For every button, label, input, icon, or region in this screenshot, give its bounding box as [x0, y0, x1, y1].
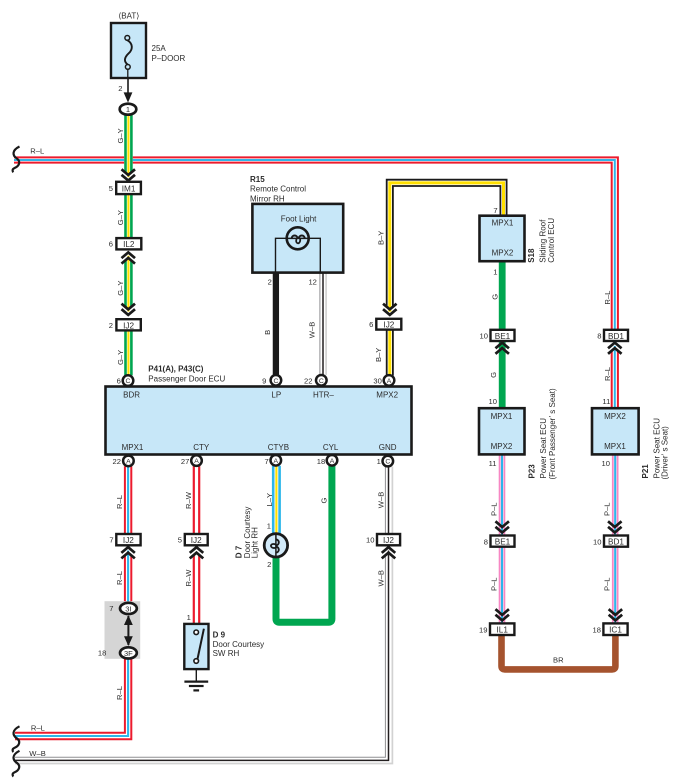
wire P-L segment P21 pin 10 to BD1(10)	[613, 454, 618, 535]
node 1 oval connector	[120, 104, 137, 115]
svg-text:10: 10	[366, 536, 374, 545]
svg-text:MPX1: MPX1	[492, 219, 514, 228]
svg-text:19: 19	[479, 625, 487, 634]
svg-text:IJ2: IJ2	[123, 536, 134, 545]
svg-text:6: 6	[117, 376, 121, 385]
svg-text:Foot Light: Foot Light	[281, 215, 317, 224]
foot light bulb lamp	[276, 227, 321, 273]
junction connector BD1 pin 10	[593, 536, 628, 547]
wire black fuse lead to node 1	[127, 78, 129, 96]
svg-text:LP: LP	[271, 391, 281, 400]
svg-text:25A: 25A	[152, 44, 167, 53]
connector 3F pin 18	[98, 647, 137, 658]
svg-text:MPX2: MPX2	[492, 249, 514, 258]
junction connector IL2 pin 6	[109, 238, 142, 249]
wire P-L segment BE1(8) to IL1	[500, 547, 505, 624]
svg-text:MPX2: MPX2	[376, 391, 398, 400]
ECU pin 22 C top	[304, 375, 327, 386]
svg-text:10: 10	[593, 537, 601, 546]
junction connector IC1 pin 18	[593, 623, 628, 635]
svg-text:2: 2	[268, 278, 272, 287]
svg-text:12: 12	[308, 278, 316, 287]
ECU S18 Sliding Roof Control ECU	[480, 206, 556, 276]
svg-text:30: 30	[373, 376, 381, 385]
svg-text:G–Y: G–Y	[116, 210, 125, 225]
svg-text:9: 9	[262, 376, 266, 385]
wire G-Y segment IM1 to IL2	[126, 194, 132, 238]
svg-text:C: C	[319, 378, 324, 385]
wire B-Y segment IJ2(6) to ECU pin 30	[387, 330, 393, 376]
svg-text:3I: 3I	[125, 604, 131, 613]
svg-text:CTYB: CTYB	[268, 443, 289, 452]
switch D9 Door Courtesy SW RH	[184, 613, 264, 669]
svg-text:(Front Passenger’ s Seat): (Front Passenger’ s Seat)	[548, 388, 557, 479]
junction connector IJ2 pin 5	[178, 534, 208, 545]
ECU P21 Power Seat ECU (Driver's Seat)	[592, 397, 670, 479]
svg-text:IJ2: IJ2	[191, 536, 202, 545]
chevrons above IJ2(2)	[122, 304, 136, 315]
svg-text:P21: P21	[641, 464, 650, 479]
wire W-B segment IJ2(10) down and left to edge	[15, 551, 392, 764]
svg-text:1: 1	[126, 105, 130, 114]
wire G-Y segment IJ2 to ECU pin 6	[126, 330, 132, 375]
svg-text:IJ2: IJ2	[383, 536, 394, 545]
wire G-Y segment fuse to IM1	[126, 115, 132, 178]
svg-text:HTR–: HTR–	[313, 391, 334, 400]
chevrons above IM1	[122, 169, 136, 180]
junction connector IJ2 pin 7	[109, 534, 140, 545]
svg-text:5: 5	[109, 184, 113, 193]
svg-text:1: 1	[187, 613, 191, 622]
continuation squiggle W-B bottom left	[13, 751, 20, 777]
wire R-L segment 3F down and left to edge	[15, 658, 131, 739]
svg-text:G: G	[320, 498, 329, 504]
ECU pin 18 A bottom	[317, 455, 338, 466]
svg-text:BDR: BDR	[123, 391, 140, 400]
svg-text:R–L: R–L	[115, 571, 124, 585]
svg-text:Power Seat ECU: Power Seat ECU	[539, 418, 548, 479]
svg-text:22: 22	[113, 457, 121, 466]
svg-text:C: C	[273, 378, 278, 385]
chevrons below IJ2(5)	[190, 547, 204, 558]
chevrons below IL2	[122, 252, 136, 263]
ECU P41(A) P43(C) Passenger Door ECU main box	[106, 364, 412, 454]
chevrons above BD1(10)	[608, 521, 622, 532]
svg-text:IJ2: IJ2	[123, 321, 134, 330]
wire R-L segment ECU pin 22 MPX1 to IJ2(7)	[125, 466, 131, 534]
svg-text:1: 1	[493, 267, 497, 276]
wire G-Y segment IL2 to IJ2	[126, 256, 132, 312]
svg-text:BR: BR	[553, 656, 564, 665]
svg-text:5: 5	[178, 536, 182, 545]
svg-text:A: A	[126, 459, 131, 466]
wire R-L segment IJ2(7) to connector 3I	[125, 551, 131, 604]
svg-text:Passenger Door ECU: Passenger Door ECU	[148, 374, 225, 383]
svg-text:MPX2: MPX2	[604, 412, 626, 421]
wire B-Y from above IJ2(6) up over to S18 pin 7	[387, 180, 507, 312]
svg-text:7: 7	[109, 536, 113, 545]
junction connector IJ2 pin 2	[109, 319, 141, 330]
svg-text:Mirror RH: Mirror RH	[250, 194, 285, 203]
component R15 Remote Control Mirror RH	[250, 175, 343, 273]
svg-text:R–L: R–L	[31, 724, 45, 733]
svg-text:P–DOOR: P–DOOR	[152, 54, 186, 63]
wire G from S18 pin 1 to BE1	[499, 261, 506, 341]
svg-text:7: 7	[493, 206, 497, 215]
svg-text:C: C	[126, 378, 131, 385]
grey instrument panel wire block	[105, 601, 141, 659]
svg-text:BD1: BD1	[608, 538, 624, 547]
svg-text:6: 6	[109, 240, 113, 249]
connector 3I pin 7	[109, 603, 137, 614]
svg-text:D 9: D 9	[213, 630, 226, 639]
svg-text:A: A	[274, 458, 279, 465]
svg-text:10: 10	[480, 332, 488, 341]
svg-text:B–Y: B–Y	[376, 231, 385, 245]
svg-text:Control ECU: Control ECU	[547, 218, 556, 263]
chevrons above IC1	[609, 609, 623, 620]
svg-text:R–W: R–W	[184, 491, 193, 509]
wire B black LP R15 pin 2 to ECU pin 9	[273, 273, 279, 375]
svg-text:P–L: P–L	[489, 577, 498, 591]
svg-text:2: 2	[109, 321, 113, 330]
svg-text:W–B: W–B	[29, 749, 45, 758]
chevrons below BD1	[608, 343, 622, 354]
chevrons below IJ2(10)	[382, 547, 396, 558]
svg-text:A: A	[330, 458, 335, 465]
svg-text:G–Y: G–Y	[116, 350, 125, 365]
svg-text:2: 2	[118, 84, 122, 93]
wire G from BE1 to P23 pin 10	[499, 341, 506, 408]
svg-text:GND: GND	[379, 443, 397, 452]
svg-text:R–L: R–L	[603, 367, 612, 381]
svg-text:D 7: D 7	[234, 545, 243, 558]
svg-text:R15: R15	[250, 175, 265, 184]
wire P-L segment BD1(10) to IC1	[613, 547, 618, 624]
svg-text:P41(A), P43(C): P41(A), P43(C)	[148, 364, 203, 373]
junction connector BD1 pin 8	[597, 330, 628, 341]
ground symbol below D9	[184, 669, 208, 690]
svg-text:(Driver’ s Seat): (Driver’ s Seat)	[661, 426, 670, 480]
svg-text:7: 7	[109, 604, 113, 613]
svg-text:G–Y: G–Y	[116, 281, 125, 296]
fuse 25A P-DOOR (BAT)	[111, 11, 186, 93]
svg-text:R–L: R–L	[30, 147, 44, 156]
svg-text:22: 22	[304, 376, 312, 385]
svg-text:G: G	[489, 372, 498, 378]
svg-text:W–B: W–B	[376, 492, 385, 508]
svg-text:18: 18	[317, 457, 325, 466]
svg-text:R–W: R–W	[184, 569, 193, 587]
svg-text:10: 10	[602, 459, 610, 468]
svg-text:BD1: BD1	[608, 332, 624, 341]
svg-text:A: A	[387, 378, 392, 385]
svg-text:2: 2	[267, 560, 271, 569]
svg-text:B: B	[263, 330, 272, 335]
svg-text:L–Y: L–Y	[265, 493, 274, 507]
wire G from D7 pin 2 around to ECU pin 18 CYL	[276, 466, 332, 622]
junction connector BE1 pin 10	[480, 330, 515, 341]
chevrons above IJ2(6)	[383, 304, 397, 315]
svg-text:R–L: R–L	[115, 495, 124, 509]
ECU pin 1 C bottom	[377, 456, 394, 467]
chevrons above BE1(8)	[495, 521, 509, 532]
wire L-Y segment ECU pin 7 CTYB to D7 pin 1	[273, 466, 279, 534]
ECU pin 30 A top	[373, 375, 394, 386]
svg-text:P–L: P–L	[489, 502, 498, 516]
chevrons above IL1	[495, 609, 509, 620]
svg-text:R–L: R–L	[603, 291, 612, 305]
svg-text:IJ2: IJ2	[383, 321, 394, 330]
svg-text:W–B: W–B	[308, 322, 317, 338]
svg-text:A: A	[194, 458, 199, 465]
svg-text:10: 10	[489, 397, 497, 406]
junction connector IJ2 pin 6	[369, 319, 401, 330]
svg-text:MPX2: MPX2	[491, 442, 513, 451]
svg-text:7: 7	[264, 457, 268, 466]
svg-text:MPX1: MPX1	[604, 442, 626, 451]
wire BR brown from IL1 to IC1	[502, 635, 616, 669]
ECU pin 9 C top	[262, 375, 281, 386]
chevrons below BE1	[495, 343, 509, 354]
continuation squiggle R-L top left	[13, 147, 20, 173]
svg-text:S18: S18	[527, 248, 536, 263]
svg-text:R–L: R–L	[115, 686, 124, 700]
svg-text:Door Courtesy: Door Courtesy	[213, 640, 265, 649]
svg-text:3F: 3F	[124, 649, 133, 658]
svg-text:B–Y: B–Y	[374, 348, 383, 362]
lamp D7 Door Courtesy Light RH	[234, 507, 287, 569]
wire W-B HTR R15 pin 12 to ECU pin 22	[320, 273, 326, 375]
wire R-L main horizontal top and right vertical	[14, 157, 618, 329]
svg-text:11: 11	[602, 397, 610, 406]
wire R-W segment IJ2(5) to switch D9 pin 1	[194, 551, 199, 624]
svg-text:Remote Control: Remote Control	[250, 185, 306, 194]
svg-text:1: 1	[377, 457, 381, 466]
wire W-B segment ECU pin 1 GND to IJ2(10)	[385, 467, 392, 534]
chevrons below IJ2(7)	[121, 547, 135, 558]
svg-text:1: 1	[267, 522, 271, 531]
svg-text:BE1: BE1	[495, 538, 511, 547]
ECU pin 22 A bottom	[113, 456, 134, 467]
svg-text:⟨BAT⟩: ⟨BAT⟩	[118, 11, 139, 20]
junction connector BE1 pin 8	[484, 536, 515, 547]
svg-text:27: 27	[181, 457, 189, 466]
svg-text:BE1: BE1	[495, 332, 511, 341]
svg-text:G–Y: G–Y	[116, 128, 125, 143]
ECU pin 6 C top	[117, 375, 134, 386]
junction connector IM1 pin 5	[109, 182, 141, 194]
continuation squiggle R-L bottom left	[13, 726, 20, 752]
svg-text:IC1: IC1	[609, 626, 622, 635]
svg-text:W–B: W–B	[376, 570, 385, 586]
svg-text:11: 11	[489, 459, 497, 468]
svg-text:CTY: CTY	[193, 443, 210, 452]
double arrow between 3I and 3F	[124, 615, 133, 646]
svg-text:8: 8	[484, 537, 488, 546]
svg-text:6: 6	[369, 320, 373, 329]
svg-text:P23: P23	[528, 464, 537, 479]
wire P-L segment P23 pin 11 to BE1(8)	[500, 454, 505, 535]
svg-text:MPX1: MPX1	[122, 443, 144, 452]
junction connector IL1 pin 19	[479, 623, 514, 635]
svg-text:CYL: CYL	[323, 443, 339, 452]
svg-text:18: 18	[593, 625, 601, 634]
wire R-L segment BD1 to P21 pin 11	[612, 346, 618, 408]
arrowhead into node 1	[124, 92, 133, 102]
svg-text:C: C	[385, 459, 390, 466]
svg-text:IL1: IL1	[497, 626, 509, 635]
ECU pin 27 A bottom	[181, 455, 202, 466]
svg-text:IL2: IL2	[123, 240, 135, 249]
svg-text:8: 8	[597, 332, 601, 341]
svg-text:SW RH: SW RH	[213, 649, 240, 658]
svg-text:G: G	[490, 294, 499, 300]
svg-text:IM1: IM1	[122, 184, 136, 193]
ECU P23 Power Seat ECU (Front Passenger's Seat)	[479, 388, 557, 479]
svg-text:MPX1: MPX1	[491, 412, 513, 421]
ECU pin 7 A bottom	[264, 455, 281, 466]
svg-text:P–L: P–L	[603, 577, 612, 591]
svg-text:18: 18	[98, 649, 106, 658]
svg-text:P–L: P–L	[603, 502, 612, 516]
svg-text:Light RH: Light RH	[250, 527, 259, 558]
wire R-W segment ECU pin 27 CTY to IJ2(5)	[194, 466, 199, 534]
junction connector IJ2 pin 10	[366, 534, 400, 545]
